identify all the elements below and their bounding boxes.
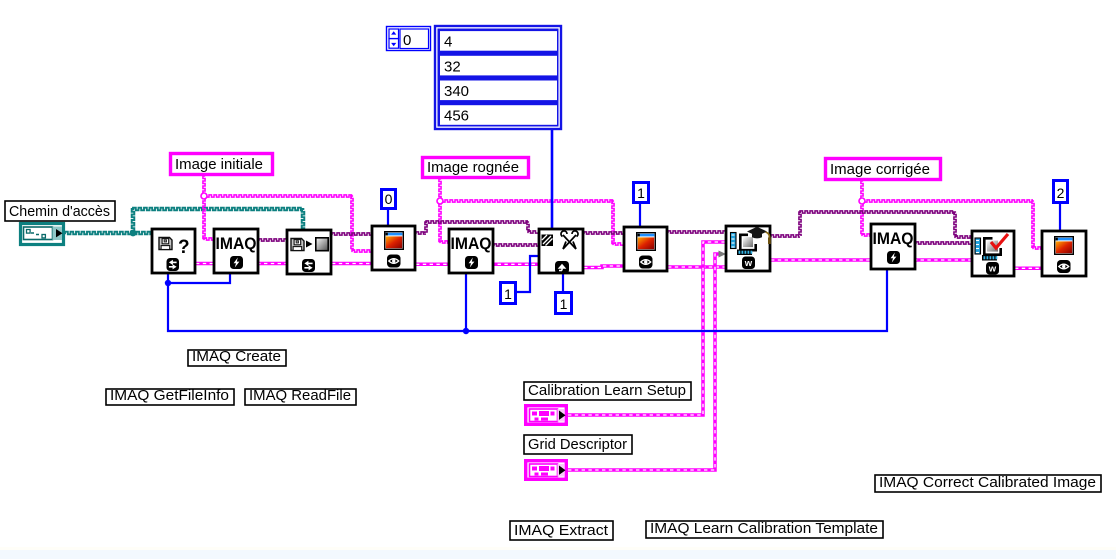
svg-text:Image initiale: Image initiale: [175, 156, 263, 173]
constant int 1 extract left: [501, 283, 516, 304]
label IMAQ Extract: [510, 521, 613, 540]
svg-text:IMAQ: IMAQ: [873, 230, 914, 248]
junction int bus Create2: [463, 328, 469, 334]
wire image Create3 to Correct: [916, 242, 971, 244]
wire cluster Calibration Learn Setup to Learn: [568, 242, 725, 415]
wire int 1 to Extract bottom: [562, 273, 564, 291]
svg-text:IMAQ ReadFile: IMAQ ReadFile: [249, 388, 351, 404]
svg-text:32: 32: [444, 58, 461, 75]
wire image Create1 to ReadFile: [259, 239, 286, 241]
wire int 0 to display1 top: [387, 210, 389, 226]
wire int 1 to Extract left: [516, 256, 538, 292]
wire path control to GetFileInfo: [65, 232, 151, 235]
svg-text:1: 1: [560, 296, 568, 312]
svg-text:IMAQ Correct Calibrated Image: IMAQ Correct Calibrated Image: [879, 474, 1096, 491]
wire error display2 to Learn: [668, 265, 725, 269]
constant int 1 display2: [634, 183, 649, 203]
constant array values 4 32 340 456: [435, 26, 561, 129]
svg-text:2: 2: [1057, 185, 1065, 201]
wire int bus up to Create2 bottom: [465, 273, 467, 331]
svg-text:IMAQ: IMAQ: [451, 235, 492, 253]
label Image corrigee: [826, 159, 941, 180]
node IMAQ Extract: [539, 229, 583, 274]
node IMAQ Learn Calibration Template: [726, 226, 771, 271]
wire image Create2 to Extract: [494, 244, 538, 246]
wire image ReadFile to display 1: [332, 233, 371, 235]
wire int GetFileInfo bottom to Create1 bottom: [168, 272, 230, 283]
constant array index: [387, 27, 431, 51]
svg-text:0: 0: [403, 32, 411, 49]
svg-text:Grid Descriptor: Grid Descriptor: [528, 436, 627, 453]
node IMAQ Create 2: [449, 229, 493, 273]
label IMAQ Learn Calibration Template: [646, 520, 883, 538]
junction string Image initiale: [201, 193, 207, 199]
window bottom strip: [0, 547, 1116, 550]
wire error display1 to Extract: [416, 263, 538, 267]
label Image initiale: [171, 154, 273, 175]
wire int 2 to display3 top: [1059, 204, 1061, 231]
wire image Extract to display 2: [584, 232, 623, 234]
label IMAQ GetFileInfo: [106, 388, 234, 405]
wire int bottom bus: [168, 269, 887, 331]
label IMAQ Correct Calibrated Image: [875, 474, 1101, 492]
wire image display2 to Learn: [668, 231, 725, 233]
junction path wire: [130, 230, 137, 237]
constant cluster Calibration Learn Setup: [526, 406, 567, 425]
svg-text:4: 4: [444, 34, 452, 51]
svg-text:1: 1: [504, 286, 512, 302]
svg-text:IMAQ Extract: IMAQ Extract: [514, 522, 609, 539]
wire string Image initiale branch to display 1: [204, 195, 371, 252]
svg-text:0: 0: [385, 191, 393, 207]
svg-text:1: 1: [637, 185, 645, 201]
wire string Image rognee branch to display 2: [440, 200, 623, 245]
wire path branch up and over to ReadFile top: [132, 208, 305, 233]
wire string Image initiale down: [203, 176, 213, 240]
svg-text:?: ?: [178, 237, 190, 258]
constant int 2 display3: [1054, 181, 1068, 203]
svg-text:340: 340: [444, 83, 469, 100]
wire string Image corrigee branch to display 3: [862, 200, 1041, 249]
wire string Image rognee down: [439, 179, 448, 243]
svg-text:Image corrigée: Image corrigée: [830, 161, 930, 178]
label Image rognee: [423, 158, 529, 178]
svg-text:Chemin d'accès: Chemin d'accès: [9, 203, 110, 220]
node IMAQ ReadFile: [287, 230, 331, 274]
node IMAQ WindDraw 1: [372, 226, 415, 270]
svg-text:IMAQ GetFileInfo: IMAQ GetFileInfo: [110, 388, 229, 404]
constant cluster Grid Descriptor: [526, 461, 567, 480]
node IMAQ GetFileInfo: [152, 229, 195, 273]
junction string Image corrigee: [859, 198, 865, 204]
control path Chemin d&#39;acces: [21, 224, 64, 245]
junction int near GetFileInfo: [165, 280, 171, 286]
constant int 1 extract bottom: [556, 293, 572, 314]
label IMAQ ReadFile: [245, 388, 356, 405]
svg-text:456: 456: [444, 108, 469, 125]
constant int 0: [382, 190, 396, 209]
svg-text:IMAQ Learn Calibration Templat: IMAQ Learn Calibration Template: [650, 520, 878, 537]
node IMAQ WindDraw 2: [624, 227, 667, 271]
wire error Extract to display2: [584, 266, 623, 268]
svg-text:Calibration Learn Setup: Calibration Learn Setup: [528, 382, 686, 399]
label Grid Descriptor: [524, 435, 632, 454]
svg-text:w: w: [988, 264, 997, 275]
svg-text:w: w: [744, 258, 753, 269]
wire error GetFileInfo to display1: [196, 262, 371, 266]
svg-text:Image rognée: Image rognée: [427, 159, 519, 176]
node IMAQ Create 3: [871, 224, 915, 269]
junction string Image rognee: [437, 198, 443, 204]
svg-text:IMAQ Create: IMAQ Create: [192, 349, 281, 365]
node IMAQ WindDraw 3: [1042, 231, 1086, 276]
wire image Learn over to Correct: [771, 211, 971, 238]
label IMAQ Create: [188, 349, 286, 366]
svg-text:IMAQ: IMAQ: [216, 235, 257, 253]
node IMAQ Create 1: [214, 229, 258, 273]
wire string Image corrigee down: [861, 181, 870, 236]
terminal arrow Grid Descriptor input: [719, 251, 727, 258]
wire int 1 to display2 top: [639, 204, 641, 227]
wire error Learn to Create3 to Correct: [771, 258, 971, 262]
wire error Correct to display3: [1015, 267, 1041, 271]
wire int array to Extract top: [551, 130, 554, 229]
node IMAQ Correct Calibrated Image: [972, 231, 1014, 276]
label Chemin d&#39;acces: [5, 201, 115, 221]
wire image display1 over Create2 to Extract: [416, 221, 538, 234]
wire cluster Grid Descriptor to Learn: [568, 254, 722, 470]
label Calibration Learn Setup: [524, 382, 691, 400]
